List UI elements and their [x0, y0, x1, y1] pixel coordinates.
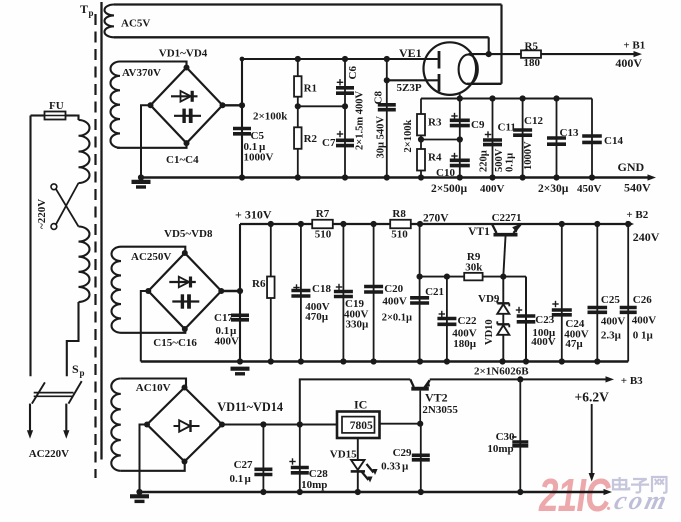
svg-text:2×1N6026B: 2×1N6026B	[474, 366, 529, 378]
svg-text:R4: R4	[428, 152, 442, 164]
svg-text:C25: C25	[601, 294, 620, 306]
svg-text:C12: C12	[524, 115, 543, 127]
svg-text:2×100k: 2×100k	[403, 120, 414, 153]
svg-text:500V: 500V	[494, 148, 505, 172]
svg-text:µ: µ	[245, 473, 252, 485]
svg-text:0.1µ: 0.1µ	[505, 153, 516, 172]
svg-text:µ: µ	[402, 461, 409, 473]
svg-text:1000V: 1000V	[244, 152, 274, 164]
svg-text:2×100k: 2×100k	[253, 111, 288, 123]
svg-text:~220V: ~220V	[36, 199, 48, 229]
svg-text:AC220V: AC220V	[29, 448, 69, 460]
svg-text:C15~C16: C15~C16	[153, 337, 197, 349]
svg-text:C2271: C2271	[492, 212, 522, 224]
svg-text:510: 510	[315, 229, 332, 241]
svg-text:400V: 400V	[215, 336, 240, 348]
svg-text:0.33: 0.33	[381, 461, 401, 473]
svg-text:C14: C14	[604, 135, 623, 147]
svg-text:VD1~VD4: VD1~VD4	[159, 48, 208, 60]
svg-text:VT1: VT1	[468, 226, 490, 238]
svg-text:400V: 400V	[382, 296, 407, 308]
svg-text:VD5~VD8: VD5~VD8	[164, 228, 213, 240]
svg-text:180µ: 180µ	[453, 338, 477, 350]
svg-text:2×1.5m 400V: 2×1.5m 400V	[355, 91, 366, 150]
svg-text:IC: IC	[354, 398, 367, 412]
svg-text:400V: 400V	[480, 183, 505, 195]
svg-text:VD11~VD14: VD11~VD14	[217, 400, 283, 414]
svg-text:C17: C17	[214, 312, 233, 324]
svg-text:C1~C4: C1~C4	[166, 154, 199, 166]
svg-text:R6: R6	[252, 278, 266, 290]
svg-text:VD15: VD15	[330, 449, 357, 461]
svg-text:C6: C6	[347, 66, 359, 80]
svg-text:C26: C26	[633, 294, 652, 306]
svg-text:400V: 400V	[632, 314, 657, 326]
svg-text:C10: C10	[436, 167, 455, 179]
svg-text:p: p	[80, 368, 85, 378]
svg-text:C13: C13	[560, 127, 579, 139]
svg-text:C7: C7	[322, 137, 336, 149]
svg-text:S: S	[72, 362, 79, 376]
svg-text:2×30µ: 2×30µ	[538, 183, 569, 195]
svg-text:+ 310V: + 310V	[235, 208, 272, 222]
svg-text:510: 510	[391, 229, 408, 241]
svg-text:400V: 400V	[601, 316, 626, 328]
svg-text:1000V: 1000V	[523, 141, 534, 170]
svg-text:0 1µ: 0 1µ	[633, 330, 654, 342]
svg-text:R7: R7	[316, 208, 330, 220]
svg-text:AC5V: AC5V	[121, 18, 150, 30]
svg-text:C27: C27	[234, 459, 253, 471]
svg-text:C21: C21	[425, 286, 444, 298]
svg-text:450V: 450V	[577, 183, 602, 195]
svg-text:VT2: VT2	[425, 391, 448, 405]
svg-text:R5: R5	[525, 41, 539, 53]
svg-text:30µ 540V: 30µ 540V	[376, 116, 387, 159]
svg-text:+ B1: + B1	[623, 40, 645, 52]
svg-text:180: 180	[524, 57, 541, 69]
svg-text:47µ: 47µ	[565, 338, 583, 350]
svg-text:220µ: 220µ	[479, 150, 490, 172]
svg-text:VE1: VE1	[399, 46, 422, 60]
svg-text:AC10V: AC10V	[136, 382, 171, 394]
svg-text:5Z3P: 5Z3P	[397, 82, 422, 94]
svg-text:C8: C8	[373, 91, 385, 105]
svg-text:10mp: 10mp	[301, 479, 327, 491]
svg-text:0.1: 0.1	[230, 473, 244, 485]
svg-text:2.3µ: 2.3µ	[601, 330, 622, 342]
svg-text:AV370V: AV370V	[122, 67, 161, 79]
svg-text:+6.2V: +6.2V	[575, 390, 610, 405]
svg-text:p: p	[89, 8, 94, 18]
svg-text:VD9: VD9	[478, 293, 500, 305]
svg-text:+ B2: + B2	[626, 209, 648, 221]
svg-text:400V: 400V	[615, 56, 642, 70]
svg-text:10mp: 10mp	[487, 443, 513, 455]
svg-text:R8: R8	[392, 208, 406, 220]
svg-text:21IC: 21IC	[538, 469, 611, 521]
svg-text:R3: R3	[428, 117, 442, 129]
svg-text:R1: R1	[304, 82, 317, 94]
svg-text:240V: 240V	[633, 230, 660, 244]
svg-text:VD10: VD10	[484, 319, 495, 345]
svg-text:330µ: 330µ	[346, 318, 370, 330]
svg-text:GND: GND	[618, 160, 645, 174]
svg-text:FU: FU	[49, 100, 64, 112]
svg-text:2N3055: 2N3055	[422, 404, 458, 416]
svg-text:R2: R2	[304, 133, 318, 145]
svg-text:2×0.1µ: 2×0.1µ	[382, 312, 412, 323]
svg-text:270V: 270V	[423, 213, 449, 225]
svg-text:C22: C22	[458, 315, 477, 327]
svg-text:C20: C20	[384, 283, 403, 295]
svg-text:.: .	[606, 493, 611, 515]
svg-text:2×500µ: 2×500µ	[431, 183, 468, 195]
svg-text:540V: 540V	[624, 181, 651, 195]
svg-text:AC250V: AC250V	[131, 251, 171, 263]
svg-text:C18: C18	[312, 283, 331, 295]
svg-text:30k: 30k	[465, 262, 483, 274]
svg-text:470µ: 470µ	[305, 311, 329, 323]
svg-text:7805: 7805	[350, 420, 373, 432]
svg-text:C9: C9	[471, 119, 485, 131]
svg-text:+ B3: + B3	[621, 375, 643, 387]
svg-text:C29: C29	[393, 447, 412, 459]
svg-text:C11: C11	[498, 122, 516, 134]
svg-text:400V: 400V	[531, 336, 556, 348]
svg-text:T: T	[80, 2, 88, 16]
